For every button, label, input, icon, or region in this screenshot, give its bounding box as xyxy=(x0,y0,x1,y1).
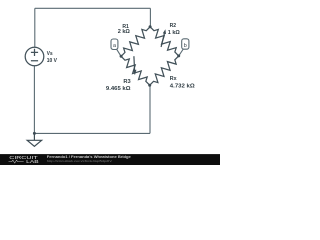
junction top node xyxy=(149,25,152,28)
node a flag xyxy=(111,39,118,50)
wire node b stub xyxy=(179,49,184,56)
wire right vertical upper xyxy=(149,8,151,27)
junction ground corner xyxy=(33,132,36,135)
resistor R3 (variable, with wiper arrow) xyxy=(121,56,150,85)
junction bottom node xyxy=(148,84,151,87)
svg-text:4.732 kΩ: 4.732 kΩ xyxy=(170,84,195,90)
wire top horizontal xyxy=(35,7,151,9)
svg-text:b: b xyxy=(184,43,187,49)
junction right node xyxy=(177,54,180,57)
ground xyxy=(27,133,41,146)
wire right vertical lower xyxy=(149,85,151,133)
resistor R2 (variable, with wiper arrow) xyxy=(150,27,179,56)
svg-text:a: a xyxy=(113,43,116,49)
resistor Rx xyxy=(150,56,179,85)
svg-text:R3: R3 xyxy=(123,79,130,85)
svg-text:R2: R2 xyxy=(170,23,177,29)
wire left vertical upper xyxy=(34,8,36,47)
svg-text:Vs: Vs xyxy=(47,51,53,57)
voltage source Vs xyxy=(25,47,44,66)
node b flag xyxy=(182,39,189,49)
svg-text:LAB: LAB xyxy=(26,159,39,164)
wire bottom horizontal xyxy=(34,132,150,134)
svg-text:10 V: 10 V xyxy=(47,58,57,64)
svg-text:1 kΩ: 1 kΩ xyxy=(168,30,180,36)
footer bar xyxy=(0,154,220,165)
wire node a stub xyxy=(117,49,122,56)
footer logo squiggle xyxy=(9,160,24,163)
resistor R1 xyxy=(121,27,150,57)
junction left node xyxy=(120,55,123,58)
svg-text:http://circuitlab.com/c6mk4tqr: http://circuitlab.com/c6mk4tqr8dp2h/ xyxy=(47,159,112,163)
svg-text:2 kΩ: 2 kΩ xyxy=(118,29,131,35)
svg-text:Rx: Rx xyxy=(170,76,178,82)
wire left vertical lower xyxy=(33,66,35,134)
svg-text:9.465 kΩ: 9.465 kΩ xyxy=(106,86,131,92)
